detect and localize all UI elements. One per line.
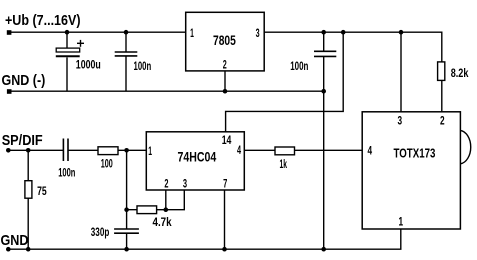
node junction pin7/GND — [222, 247, 227, 252]
lens arc — [460, 130, 470, 163]
svg-text:1k: 1k — [280, 157, 288, 171]
capacitor C1 1000u — [66, 32, 68, 48]
node junction pin2/pin3 — [164, 207, 169, 212]
node junction GND rail end — [321, 89, 326, 94]
svg-text:74HC04: 74HC04 — [178, 150, 217, 165]
node junction Vcc branch — [341, 30, 346, 35]
svg-text:1: 1 — [148, 144, 152, 158]
svg-text:1: 1 — [190, 26, 194, 40]
svg-text:1000u: 1000u — [76, 58, 101, 72]
wire TOTX pin3 vertical — [400, 32, 402, 112]
resistor R3 4.7k — [137, 206, 157, 214]
node SP/DIF terminal — [6, 148, 11, 153]
node junction TOTX pin3 — [399, 30, 404, 35]
wire 1k to TOTX pin4 — [295, 149, 363, 151]
resistor R5 8.2k — [438, 62, 445, 81]
node junction 100n top — [124, 30, 129, 35]
svg-text:14: 14 — [222, 133, 232, 147]
inverter U2 74HC04 — [146, 132, 244, 190]
wire pin4 output — [244, 149, 275, 151]
wire feedback vertical — [127, 150, 137, 209]
svg-text:SP/DIF: SP/DIF — [2, 132, 43, 149]
svg-text:3: 3 — [256, 26, 260, 40]
svg-text:TOTX173: TOTX173 — [394, 145, 436, 160]
wire GND(-) rail — [9, 90, 324, 92]
svg-text:3: 3 — [398, 114, 403, 128]
resistor R4 1k — [275, 147, 295, 155]
wire 4.7k to pin2 — [157, 209, 166, 211]
resistor R2 75 — [27, 150, 29, 180]
node junction feedback — [124, 148, 129, 153]
wire pin7 to GND — [224, 190, 226, 249]
node junction 330p/GND — [124, 247, 129, 252]
capacitor C2 100n — [125, 32, 127, 52]
svg-text:4: 4 — [368, 144, 373, 158]
node junction 100n2 top — [321, 30, 326, 35]
node junction 75 — [26, 148, 31, 153]
svg-text:2: 2 — [223, 58, 227, 72]
svg-text:8.2k: 8.2k — [451, 66, 469, 80]
wire cap to R1 — [68, 149, 98, 151]
node junction pin2/GND — [223, 89, 228, 94]
resistor R1 100 — [98, 147, 118, 155]
node GND(-) terminal — [7, 89, 12, 94]
svg-text:330p: 330p — [91, 225, 110, 239]
svg-text:100n: 100n — [134, 59, 152, 73]
node junction GNDvert/GND — [321, 247, 326, 252]
svg-text:3: 3 — [183, 176, 187, 190]
capacitor C4 100n series — [62, 139, 64, 162]
svg-text:+Ub (7...16V): +Ub (7...16V) — [5, 12, 81, 29]
svg-text:1: 1 — [399, 215, 404, 229]
node junction 75/GND — [26, 247, 31, 252]
svg-text:2: 2 — [440, 114, 445, 128]
svg-text:4: 4 — [237, 143, 241, 157]
wire SPDIF input — [8, 149, 63, 151]
svg-text:2: 2 — [164, 176, 168, 190]
wire GND vertical — [323, 56, 325, 249]
svg-text:100n: 100n — [290, 59, 308, 73]
wire +Ub rail — [9, 31, 186, 33]
svg-text:4.7k: 4.7k — [153, 215, 172, 229]
svg-text:7: 7 — [223, 176, 227, 190]
wire pin3 to pin2 — [166, 190, 185, 210]
svg-text:7805: 7805 — [213, 32, 236, 48]
capacitor C5 330p — [126, 210, 128, 229]
svg-text:100: 100 — [101, 157, 113, 171]
capacitor C3 100n — [323, 32, 325, 51]
node GND terminal — [6, 247, 11, 252]
node +Ub terminal — [7, 30, 12, 35]
wire Vcc to pin14 route — [226, 32, 344, 132]
node junction 1000u top — [65, 30, 70, 35]
wire 7805 pin2 to GND rail — [224, 71, 226, 91]
wire TOTX pin1 to GND — [8, 229, 401, 249]
svg-text:75: 75 — [37, 184, 47, 198]
svg-text:GND (-): GND (-) — [2, 72, 46, 89]
svg-text:GND: GND — [1, 232, 29, 249]
wire R1 to pin1 — [118, 149, 146, 151]
regulator U1 7805 — [186, 12, 265, 71]
wire 7805 out rail — [264, 32, 442, 62]
node junction feedback bottom — [124, 207, 129, 212]
optical transmitter U3 TOTX173 — [362, 112, 460, 229]
wire pin2 vertical — [165, 190, 167, 210]
svg-text:100n: 100n — [58, 166, 75, 180]
